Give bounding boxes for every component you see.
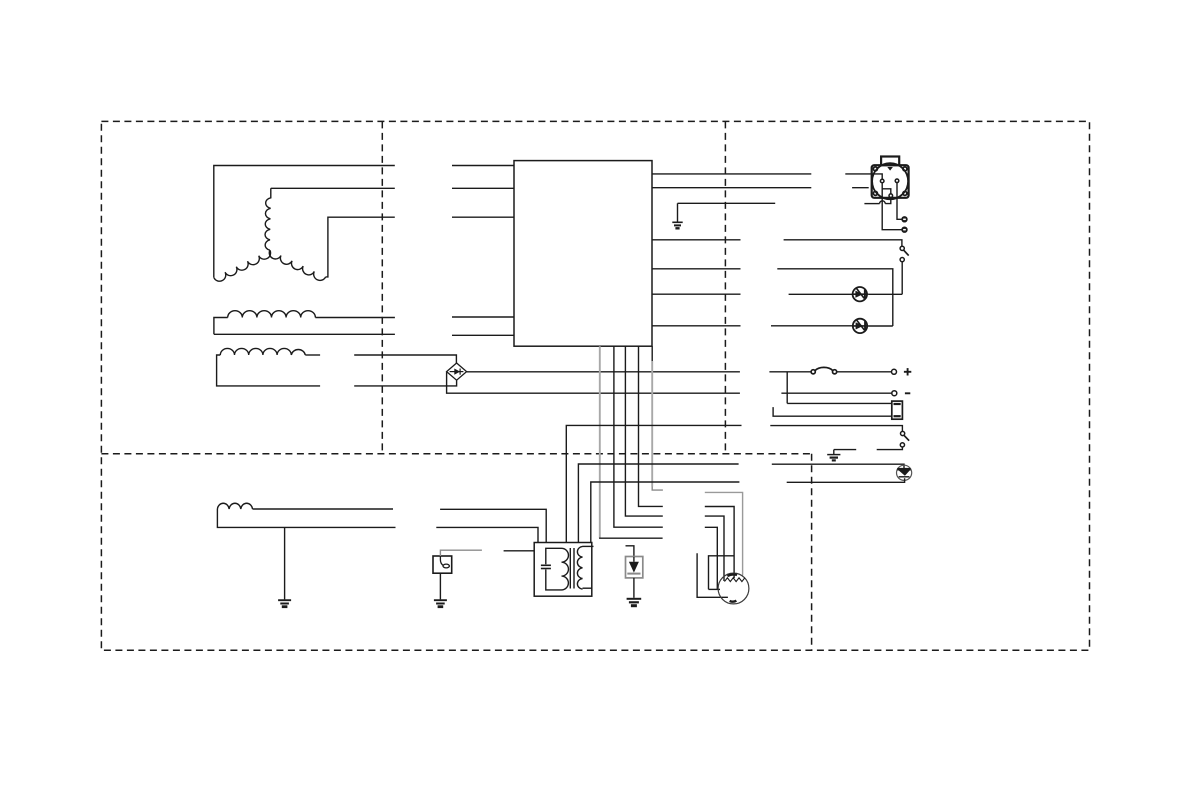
bullet connector 2 xyxy=(902,227,907,232)
ignition switch R lead to bullet 1 xyxy=(897,183,902,220)
wire fuse feed (right segment) xyxy=(769,371,811,373)
stator Y-winding left arm coil xyxy=(214,250,271,281)
dashed divider left/middle xyxy=(381,121,383,453)
wire CDI bottom lead D xyxy=(639,346,663,506)
wire HT lead (grey) to plug xyxy=(705,492,743,575)
wire feed3 down to ignition coil xyxy=(591,482,740,543)
ground G1 (CDI area) xyxy=(677,203,679,222)
dashed enclosure outer border xyxy=(101,121,1089,650)
kill switch S2 xyxy=(900,246,904,250)
wire CDI out3 kill-switch feed xyxy=(652,239,741,241)
pickup coil box P1 xyxy=(433,556,452,573)
dashed horizontal divider xyxy=(101,453,811,455)
wire pickup to ignition coil (black segment) xyxy=(504,550,535,552)
horn H1 xyxy=(897,465,912,480)
ignition switch key marker xyxy=(887,167,893,171)
wire kill switch feed (right segment) xyxy=(784,240,902,246)
battery BT1 xyxy=(892,401,903,419)
spark plug cap outline xyxy=(709,556,735,590)
wire lighting coil 1 top xyxy=(214,318,228,335)
wire exciter top to ignition coil (right segment) xyxy=(440,509,546,542)
ground G5 (zener) xyxy=(627,598,642,600)
wire battery bottom xyxy=(773,407,892,416)
wire fuse to battery plus xyxy=(837,371,892,373)
ignition switch body circle xyxy=(872,163,908,199)
wire CDI bottom lead E xyxy=(651,346,653,361)
wire stator phase3 (left segment) xyxy=(326,217,395,277)
wire coil2 top to rectifier (right segment) xyxy=(354,355,456,363)
wire exciter coil left/bottom xyxy=(217,509,395,527)
zener diode Z1 top lead xyxy=(626,546,634,557)
wire CDI bottom lead B xyxy=(614,346,663,527)
wire stator phase2 (left segment) xyxy=(271,187,395,189)
ignition switch contact L xyxy=(880,179,884,183)
wire connector segment phase1 to CDI xyxy=(452,165,514,167)
zener diode Z1 xyxy=(626,557,643,578)
wire feed1 down to ignition coil xyxy=(566,425,741,542)
wire kill switch to lamp1 line xyxy=(901,262,903,295)
battery minus terminal xyxy=(892,391,897,396)
ignition coil primary winding xyxy=(562,548,569,590)
ignition switch L lead to bullet 2 xyxy=(882,189,902,230)
wire exciter coil top out xyxy=(253,508,394,510)
wire CDI bottom lead A (grey) xyxy=(599,346,601,538)
lighting coil 1 winding xyxy=(228,311,316,318)
CDI unit box xyxy=(514,161,652,347)
wire to ignition switch terminal L xyxy=(845,174,882,179)
wire starter switch feed (right segment) xyxy=(770,426,902,432)
lighting coil 2 winding xyxy=(220,348,305,355)
wire CDI out1 to ignition switch xyxy=(652,173,811,175)
fuse F1 xyxy=(811,370,815,374)
wire stator phase1 to CDI (left segment) xyxy=(214,166,395,278)
stator Y-winding top arm coil xyxy=(265,188,271,250)
ignition switch contact B xyxy=(889,194,893,198)
bullet connector 1 xyxy=(902,217,907,222)
wire plug lead 2 xyxy=(705,516,724,581)
rectifier diode D1 (diamond) xyxy=(447,363,467,380)
wire exciter bottom to ignition coil (right segment) xyxy=(436,527,538,542)
ignition switch B to ground lead xyxy=(885,198,891,204)
ignition coil core xyxy=(569,548,571,589)
wire ground tap line xyxy=(678,202,776,204)
ignition switch key tab xyxy=(881,157,899,166)
wire battery top xyxy=(787,402,892,404)
wire lighting coil 1 out xyxy=(315,317,395,319)
wire CDI out4 to lamp2 right (right segment) xyxy=(777,269,893,326)
wire lamp1 feed (right segment) xyxy=(789,293,853,295)
ground G3 (exciter) xyxy=(284,527,286,599)
wire secondary top xyxy=(583,545,594,547)
wire rectifier left vertex down and right xyxy=(447,372,740,393)
wire CDI bottom lead C xyxy=(625,346,662,516)
indicator lamp LP2 xyxy=(853,319,867,333)
wire lighting coil 2 left/bottom xyxy=(217,355,321,386)
ignition switch contact R xyxy=(895,179,899,183)
wire lamp2 feed (right segment) xyxy=(771,325,852,327)
starter switch S3 xyxy=(901,431,905,435)
indicator lamp LP1 xyxy=(853,287,867,301)
zener bottom lead xyxy=(633,578,635,598)
wire starter switch bottom xyxy=(877,447,903,450)
wire plug lead 1 xyxy=(705,507,734,579)
dashed divider middle/right xyxy=(724,121,726,453)
exciter coil winding xyxy=(217,503,252,509)
wire connector segment coil1-bottom to CDI xyxy=(452,334,514,336)
spark plug SP1 xyxy=(718,573,749,604)
spark plug bracket xyxy=(697,553,728,597)
wire coil2 bottom to rectifier (right segment) xyxy=(354,380,456,386)
wire CDI out6 lamp2 feed xyxy=(652,325,741,327)
wire lamp1 to kill switch bottom xyxy=(868,293,902,295)
wire pickup link (grey) xyxy=(440,550,482,556)
wire rectifier output plus xyxy=(467,371,740,373)
wire lighting coil 1 bottom xyxy=(214,333,395,335)
ignition switch bolt holes xyxy=(873,167,877,171)
ignition switch internal link L-B xyxy=(882,183,891,194)
wire CDI out4 xyxy=(652,268,741,270)
battery plus terminal xyxy=(892,369,897,374)
wire junction vertical xyxy=(786,372,788,404)
ignition coil T1 box xyxy=(534,543,592,597)
wire lamp2 right xyxy=(868,325,892,327)
wire feed2 down to ignition coil xyxy=(578,464,738,543)
wire to ground (starter) xyxy=(834,449,856,451)
wire horn feed (right segment) xyxy=(772,464,904,468)
dashed divider bottom-left/bottom-right xyxy=(811,454,813,650)
ground G4 (pickup) xyxy=(439,573,441,599)
minus sign xyxy=(905,392,910,394)
ignition switch S1 mounting plate xyxy=(872,165,909,198)
stator Y-winding right arm coil xyxy=(269,250,325,280)
wire CDI out2 xyxy=(652,187,811,189)
wire connector segment phase2 to CDI xyxy=(452,187,514,189)
wire CDI out5 lamp1 feed xyxy=(652,293,741,295)
ignition coil secondary winding xyxy=(577,546,582,589)
capacitor C1 xyxy=(546,548,562,564)
wire to ignition switch stub xyxy=(852,187,869,189)
wire connector segment coil1-top to CDI xyxy=(452,316,514,318)
plus sign xyxy=(904,371,911,373)
wire lighting coil 2 top out xyxy=(305,354,320,356)
wire plug lead 3 xyxy=(705,527,718,589)
wire connector segment phase3 to CDI xyxy=(452,216,514,218)
wire horn bottom xyxy=(787,478,905,482)
wire minus line xyxy=(781,392,891,394)
ground G2 (starter) xyxy=(833,450,835,455)
